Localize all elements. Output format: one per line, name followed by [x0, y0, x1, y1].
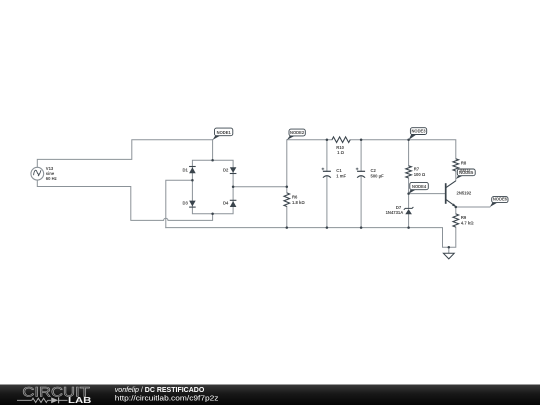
ground symbol [443, 253, 454, 259]
node NODE5 [456, 169, 475, 179]
footer title text [115, 387, 219, 403]
svg-text:D2: D2 [223, 167, 229, 172]
resistor R6 1.8k [284, 193, 305, 207]
node C2 bottom junction [360, 226, 363, 229]
node D1-D3 junction (DC-) [191, 179, 194, 182]
wire: C1 leads [326, 140, 328, 228]
wire: base wire NODE4 to Q1 [409, 193, 446, 195]
wire: bridge rectangle [192, 160, 233, 214]
zener diode D7 1N4731A [386, 205, 414, 215]
svg-text:60 Hz: 60 Hz [46, 176, 57, 181]
wire: C2 leads [360, 140, 362, 228]
svg-text:vonfelip / DC RESTIFICADO: vonfelip / DC RESTIFICADO [115, 387, 205, 394]
node NODE2 [287, 129, 305, 140]
wire: DC- from D1/D3 junction down to bottom rail [166, 180, 193, 227]
svg-text:2N5192: 2N5192 [457, 190, 472, 195]
resistor R10 1 ohm [332, 137, 350, 155]
node C1 bottom junction [326, 226, 329, 229]
svg-text:1.8 kΩ: 1.8 kΩ [292, 200, 305, 205]
svg-text:D1: D1 [183, 167, 189, 172]
diode D2 [223, 167, 236, 173]
svg-text:D3: D3 [183, 200, 189, 205]
svg-text:NODE4: NODE4 [412, 184, 427, 189]
node emitter junction [455, 206, 458, 209]
svg-text:1 mF: 1 mF [336, 173, 346, 178]
svg-text:100 Ω: 100 Ω [414, 172, 426, 177]
resistor R7 100 ohm [406, 166, 426, 178]
diode D3 [183, 200, 196, 207]
svg-text:D4: D4 [223, 200, 229, 205]
node bridge bottom junction [211, 212, 214, 215]
wire: R8 bottom lead to collector [455, 171, 457, 181]
node NODE3-R7 junction [407, 138, 410, 141]
node D2-D4 junction (DC+) [232, 186, 235, 189]
wire: R9 leads and drop to ground [449, 207, 456, 247]
node NODE6 [490, 197, 508, 207]
wire: bridge DC+ output to R6/NODE2 junction [233, 186, 287, 188]
node R6 bottom junction [286, 226, 289, 229]
diode D1 [183, 167, 196, 174]
svg-text:NODE2: NODE2 [290, 130, 305, 135]
wire: top rail R10 to R8 corner [350, 140, 456, 159]
node ground junction [448, 246, 451, 249]
wire: V13 bottom lead to bridge bottom (with hop over DC- wire) [37, 180, 212, 220]
wire: bottom ground rail [166, 228, 449, 248]
wire: emitter to NODE6 stub [456, 206, 490, 208]
capacitor C1 [322, 168, 347, 179]
capacitor C2 [356, 168, 384, 179]
wire: NODE1 drop to bridge top [212, 140, 214, 161]
svg-text:1 Ω: 1 Ω [337, 150, 344, 155]
node NODE1 [213, 128, 233, 140]
diode D4 [223, 200, 236, 207]
wire: zener D7 leads down to rail [408, 194, 410, 228]
node C2 top junction [360, 138, 363, 141]
svg-text:500 µF: 500 µF [371, 173, 385, 178]
resistor R8 100 ohm [453, 159, 467, 171]
node bridge top junction [211, 159, 214, 162]
svg-text:R8: R8 [461, 160, 467, 165]
node NODE4 base junction [407, 192, 410, 195]
node NODE3 [409, 128, 427, 140]
svg-text:100 Ω: 100 Ω [459, 168, 471, 173]
voltage source V13 [31, 166, 57, 181]
wire: ground stub [448, 247, 450, 253]
svg-text:1N4731A: 1N4731A [386, 210, 404, 215]
svg-text:4.7 kΩ: 4.7 kΩ [461, 220, 474, 225]
wire: R6 leads [286, 187, 288, 228]
resistor R9 4.7k [453, 214, 474, 227]
node NODE2-R6 junction [286, 186, 289, 189]
svg-text:NODE6: NODE6 [493, 197, 508, 202]
transistor Q1 2N5192 [446, 181, 472, 207]
wire: V13 top lead to top-left rail [37, 140, 212, 168]
node C1 top junction [326, 138, 329, 141]
node NODE4 [409, 182, 429, 193]
wire: NODE2 vertical riser [287, 140, 332, 187]
wire: R7 leads on NODE3 vertical [408, 140, 410, 194]
svg-text:http://circuitlab.com/c9f7p2z: http://circuitlab.com/c9f7p2z [115, 396, 219, 403]
svg-text:NODE3: NODE3 [411, 129, 426, 134]
svg-text:NODE1: NODE1 [217, 130, 232, 135]
node D7 bottom junction [407, 226, 410, 229]
svg-text:LAB: LAB [68, 396, 92, 405]
CircuitLab logo [17, 384, 92, 405]
